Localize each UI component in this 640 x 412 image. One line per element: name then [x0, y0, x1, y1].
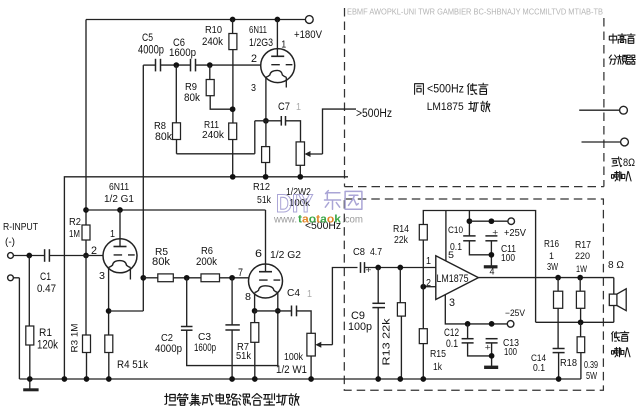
wire: cathode node to C7: [266, 120, 281, 122]
text 喇叭 (top): [612, 171, 632, 181]
svg-text:LM1875: LM1875: [437, 273, 469, 285]
svg-text:LM1875: LM1875: [427, 101, 464, 113]
watermark 乐: [325, 191, 341, 210]
svg-text:1k: 1k: [433, 362, 443, 373]
resistor R2 1M: [82, 225, 90, 240]
capacitor C4: [291, 306, 293, 317]
wire: pin 5 supply stub: [445, 211, 447, 261]
capacitor C12 0.1: [462, 338, 474, 340]
wire: R8 bottom lead: [176, 140, 178, 154]
svg-text:5W: 5W: [586, 371, 597, 382]
wire: G3 heater tick: [285, 77, 287, 87]
svg-text:1/2G3: 1/2G3: [249, 37, 273, 49]
resistor R3 1M: [83, 335, 91, 353]
wire: R7 bottom lead: [254, 342, 256, 379]
resistor R11 240k: [229, 123, 237, 140]
wire: R18 bottom lead: [580, 353, 582, 379]
junction C14 / rail: [556, 376, 562, 382]
svg-text:C7: C7: [278, 101, 290, 113]
junction ground return / rail: [62, 376, 68, 382]
wire: G1 plate wire y=210: [86, 209, 266, 211]
junction R13 top: [397, 265, 403, 271]
svg-text:100k: 100k: [284, 352, 304, 363]
wire: C10 top lead: [468, 211, 470, 236]
wire: cathode out right: [109, 310, 144, 312]
svg-text:2: 2: [91, 245, 97, 257]
svg-text:80k: 80k: [152, 256, 170, 268]
wire: G1 cathode drop: [108, 267, 110, 335]
svg-text:1600p: 1600p: [194, 342, 216, 354]
junction G1 plate: [117, 207, 123, 213]
svg-text:EBMF AWOPKL-UNI TWR GAMBIER BC: EBMF AWOPKL-UNI TWR GAMBIER BC-SHBNAJY M…: [347, 8, 603, 17]
wire: G1 plate lead: [119, 210, 121, 247]
svg-text:4000p: 4000p: [155, 343, 182, 355]
junction C9 top: [375, 265, 381, 271]
junction C3 / rail: [229, 376, 235, 382]
wire: W1 wiper riser to C8: [332, 268, 357, 345]
triode U1 G1 (6N11 half): [103, 239, 137, 273]
junction -25V wire / C13: [489, 321, 495, 327]
junction pin 2 node: [420, 284, 426, 290]
wire: G2 plate lead: [265, 210, 267, 272]
wire: W1 bottom lead: [310, 356, 312, 379]
text 喇叭 (speaker): [612, 347, 631, 357]
wire: C2 bottom to cathode return: [187, 311, 278, 366]
resistor R7 51k: [251, 323, 259, 343]
junction R9/R10/R11: [230, 106, 236, 112]
capacitor C13 100: [486, 338, 498, 340]
wire: W2 wiper to >500Hz out: [323, 109, 357, 154]
speaker (8 ohm woofer): [609, 294, 617, 305]
ground bar (supply +): [484, 265, 498, 268]
svg-text:1: 1: [307, 289, 312, 300]
capacitor C8 4.7: [360, 262, 362, 273]
wire: crossover out 2: [582, 141, 621, 143]
svg-text:8 Ω: 8 Ω: [608, 260, 624, 271]
svg-text:3W: 3W: [547, 262, 558, 273]
potentiometer W1 100k: [307, 333, 315, 356]
wire: grid filter line left: [143, 277, 158, 279]
terminal crossover out 1: [620, 106, 628, 114]
wire: C11 bottom lead: [490, 241, 492, 267]
svg-text:240k: 240k: [202, 36, 223, 48]
wire: R14 bottom to pin2: [422, 240, 424, 287]
capacitor C9 100p: [372, 302, 385, 304]
wire: +180V top rail: [86, 19, 305, 21]
wire: G3 grid line left: [143, 64, 155, 66]
svg-text:R4 51k: R4 51k: [117, 359, 148, 371]
terminal input ground: [8, 275, 14, 281]
wire: left ground drop: [18, 278, 20, 379]
wire: C4 to W1 top: [297, 311, 312, 333]
svg-text:C14: C14: [531, 353, 546, 363]
wire: C1 to G1 grid: [49, 255, 103, 257]
svg-text:7: 7: [238, 267, 243, 279]
junction grid node at R2/R3: [83, 253, 89, 259]
svg-text:1600p: 1600p: [169, 47, 196, 59]
svg-text:2: 2: [251, 53, 257, 65]
svg-text:3: 3: [99, 271, 105, 282]
junction R15 / rail: [420, 376, 426, 382]
svg-text:R3 1M: R3 1M: [70, 323, 81, 352]
junction C10/C11 gnd: [489, 252, 495, 258]
wire: G3 plate lead: [276, 20, 278, 57]
svg-text:taotaok: taotaok: [298, 214, 342, 226]
svg-text:100p: 100p: [348, 321, 372, 333]
wire: pin 3 stub to -25V wire: [445, 295, 507, 324]
text 低音 (speaker): [612, 331, 629, 341]
wire: R7 top lead: [254, 311, 256, 323]
capacitor C2 4000p: [181, 326, 193, 328]
junction +25V wire / C11: [489, 218, 495, 224]
resistor R8 80k: [173, 123, 181, 140]
wire: R5 to R6: [173, 277, 201, 279]
caption 胆管集成电路混合型功放: [165, 394, 299, 406]
terminal +180V: [305, 16, 313, 24]
svg-text:+: +: [366, 265, 372, 275]
svg-text:100: 100: [501, 253, 515, 264]
junction R11/ground wire: [230, 174, 236, 180]
svg-text:80k: 80k: [155, 131, 172, 143]
svg-text:0.39: 0.39: [584, 360, 598, 371]
resistor R18 0.39 5W: [577, 337, 585, 353]
resistor R1 120k: [26, 326, 34, 345]
junction -25V wire / C12: [465, 321, 471, 327]
junction +25V wire / C10: [467, 218, 473, 224]
svg-text:+25V: +25V: [504, 228, 526, 239]
text 功放: [469, 101, 490, 111]
svg-text:100: 100: [504, 347, 517, 358]
wire: C6 to G3 grid: [196, 64, 261, 66]
wire: R2 bottom to grid node: [85, 240, 87, 256]
junction B+ branch / G1 plate wire: [83, 207, 89, 213]
wire: grid node down to R3: [85, 256, 87, 336]
wire: R12 bottom lead: [265, 163, 267, 177]
svg-text:C4: C4: [287, 288, 300, 299]
wire: C3 top lead: [231, 278, 233, 325]
text 中高音: [609, 34, 635, 44]
triode U2 G3 (6N11 half): [261, 49, 295, 83]
svg-text:(-): (-): [5, 237, 15, 248]
resistor R6 200k: [201, 274, 220, 282]
wire: R8 net riser: [254, 121, 256, 154]
svg-text:0.1: 0.1: [450, 242, 462, 253]
junction C3 top: [229, 275, 235, 281]
svg-text:3: 3: [449, 297, 455, 309]
svg-text:+: +: [485, 342, 491, 352]
svg-text:51k: 51k: [257, 195, 272, 206]
svg-text:1W: 1W: [576, 264, 587, 274]
junction B+ / G3 plate: [275, 17, 281, 23]
ground symbol: [29, 379, 31, 390]
wire: feedback riser x=143.3: [142, 65, 144, 278]
svg-text:.com: .com: [342, 214, 363, 226]
svg-text:www.: www.: [273, 214, 297, 226]
wire: W2 bottom lead: [299, 165, 301, 177]
resistor R15 1k: [419, 329, 427, 344]
svg-text:>500Hz: >500Hz: [356, 106, 392, 120]
capacitor C10 0.1: [463, 235, 475, 237]
wire: C2 top lead: [186, 278, 188, 327]
svg-text:R14: R14: [393, 224, 409, 235]
resistor R16 1R 3W: [554, 291, 563, 308]
junction R4 / rail: [106, 376, 112, 382]
resistor R9 80k: [206, 80, 214, 96]
ground bar (supply -): [484, 366, 498, 369]
wire: C8 to pin 1: [365, 267, 436, 269]
wire: B+ rail down left branch x=86 (to R2): [85, 20, 87, 226]
svg-text:R18: R18: [560, 358, 577, 369]
svg-text:220: 220: [575, 251, 590, 261]
wire: feedback rail: [423, 211, 535, 323]
wire: cathode node left to R8 riser: [255, 120, 266, 122]
potentiometer W2 100k: [296, 142, 304, 165]
wire: R16 to C14: [557, 308, 559, 348]
watermark 园: [345, 191, 362, 209]
wire: R10 bottom to R11: [232, 50, 234, 123]
wire: R15 bottom lead: [422, 344, 424, 379]
wire: R18 top lead: [580, 322, 582, 337]
svg-text:R15: R15: [430, 349, 446, 360]
svg-text:8: 8: [245, 292, 251, 303]
text 或: [612, 157, 622, 167]
svg-text:C8: C8: [353, 247, 365, 258]
svg-text:22k: 22k: [394, 235, 409, 246]
svg-text:1/2 G1: 1/2 G1: [104, 194, 134, 205]
wire: +25V wire: [469, 220, 508, 222]
wire: speaker return: [536, 321, 614, 323]
text 分频器: [609, 55, 635, 64]
svg-text:1/2 W1: 1/2 W1: [276, 364, 307, 376]
svg-text:240k: 240k: [202, 130, 225, 141]
resistor R17 220 1W: [576, 291, 584, 308]
svg-text:C1: C1: [40, 271, 51, 283]
junction cathode return: [275, 308, 281, 314]
wire: R12 top lead: [265, 121, 267, 147]
svg-text:+180V: +180V: [294, 29, 322, 41]
junction R13 / rail: [397, 376, 403, 382]
op-amp U4 LM1875: [436, 256, 479, 300]
wire: R8 top lead: [175, 65, 177, 123]
capacitor C7: [280, 116, 282, 126]
junction C2 top: [184, 275, 190, 281]
svg-text:0.1: 0.1: [446, 338, 458, 350]
junction W1 / rail: [308, 376, 314, 382]
junction W2/ground wire: [297, 174, 303, 180]
svg-text:1M: 1M: [69, 229, 80, 240]
text 低音 (after 500Hz): [467, 83, 488, 94]
svg-text:51k: 51k: [236, 351, 252, 362]
dashed box: <500Hz LM1875 bass amp section: [344, 199, 603, 390]
terminal input signal: [8, 253, 14, 259]
junction input / R1: [26, 253, 32, 259]
wire: G2 cathode drop: [254, 293, 256, 311]
terminal -25V: [507, 321, 514, 328]
wire: R13 top lead: [399, 268, 401, 303]
terminal +25V: [508, 218, 515, 225]
svg-text:C10: C10: [448, 225, 463, 235]
resistor R12 51k: [262, 147, 270, 163]
wire: C9 bottom lead: [377, 308, 379, 379]
wire: R15 top lead: [422, 287, 424, 329]
junction R17/R18/return: [578, 319, 584, 325]
junction B+ / R10: [230, 17, 236, 23]
wire: R10 top lead: [232, 20, 234, 34]
wire: C3 bottom to ground: [231, 330, 233, 379]
junction R1 / rail: [27, 376, 33, 382]
svg-text:200k: 200k: [196, 256, 217, 268]
junction C9 / rail: [375, 376, 381, 382]
resistor R10 240k: [229, 34, 237, 50]
svg-text:6N11: 6N11: [109, 182, 129, 193]
svg-text:6: 6: [255, 248, 262, 260]
junction R3 / rail: [84, 376, 90, 382]
resistor R13 22k: [397, 303, 405, 316]
capacitor C11 100: [485, 235, 497, 237]
junction G1 cathode / follower output: [106, 308, 112, 314]
svg-text:0.1: 0.1: [533, 363, 545, 374]
svg-text:1/2 G2: 1/2 G2: [270, 250, 301, 261]
resistor R4 51k: [105, 335, 113, 353]
wire: R1 bottom lead: [29, 345, 31, 379]
wire: R13 bottom lead: [400, 316, 402, 379]
capacitor C6 1600p: [190, 59, 192, 72]
svg-text:R10: R10: [205, 25, 222, 36]
wire: speaker top lead: [613, 278, 615, 295]
wire: C14 bottom lead: [558, 353, 560, 379]
wire: input ground terminal stub: [13, 277, 19, 279]
wire: C12 bottom to C13 gnd: [468, 343, 492, 356]
wire: R8 bottom across: [177, 153, 255, 155]
wire: cathode to C4: [255, 310, 292, 312]
svg-text:6N11: 6N11: [249, 25, 267, 36]
capacitor C14 0.1: [553, 348, 565, 350]
wire: R17 top lead: [579, 278, 581, 292]
wire: main ground rail: [19, 378, 581, 380]
svg-text:3: 3: [251, 83, 256, 94]
junction G2 cathode / R7: [252, 308, 258, 314]
junction R17 top: [577, 275, 583, 281]
wire: R6 to G2 grid: [220, 277, 249, 279]
junction R16 top: [555, 275, 561, 281]
svg-text:+: +: [492, 228, 498, 238]
text 同: [415, 84, 424, 95]
svg-text:R2: R2: [69, 217, 81, 228]
wire: R17 bottom lead: [580, 308, 582, 322]
junction C6/R9: [207, 62, 213, 68]
svg-text:R16: R16: [544, 239, 559, 250]
svg-text:80k: 80k: [184, 92, 200, 104]
junction R12/ground wire: [263, 174, 269, 180]
dashed box: >500Hz mid-high crossover section (left/right/bottom edges): [345, 8, 604, 187]
junction G3 cathode node: [263, 118, 269, 124]
svg-text:4.7: 4.7: [370, 247, 382, 258]
svg-text:R12: R12: [253, 182, 270, 193]
wire: C10 bottom to C11 gnd: [469, 241, 491, 255]
junction R5 node: [140, 275, 146, 281]
svg-text:R-INPUT: R-INPUT: [3, 222, 38, 233]
capacitor C5 4000p: [155, 59, 157, 72]
svg-text:1: 1: [549, 251, 554, 261]
svg-text:1: 1: [110, 229, 115, 240]
capacitor C3 1600p: [225, 324, 239, 326]
wire: C13 bottom lead: [491, 343, 493, 367]
junction R7 / rail: [252, 376, 258, 382]
svg-text:<500Hz: <500Hz: [427, 82, 464, 96]
wire: G1 heater tick: [129, 267, 131, 279]
svg-text:1: 1: [426, 256, 431, 267]
svg-text:R17: R17: [575, 240, 591, 251]
wire: G2 right pin drop: [277, 293, 279, 311]
wire: G3 cathode drop: [265, 77, 267, 121]
wire: C7 to W2 top: [286, 121, 301, 142]
wire: crossover out 1: [579, 109, 619, 111]
junction C12/C13 gnd: [489, 353, 495, 359]
svg-text:R13 22k: R13 22k: [382, 317, 393, 365]
wire: R9 bottom to R10 node: [210, 96, 232, 110]
wire: R16 top lead: [557, 278, 559, 292]
svg-text:4000p: 4000p: [138, 43, 164, 57]
triode U3 G2 (6N11 half): [249, 264, 283, 298]
wire: input terminal to C1: [13, 255, 44, 257]
wire: C9 top lead: [377, 268, 379, 304]
wire: R11 bottom lead: [232, 140, 234, 177]
svg-text:0.47: 0.47: [37, 283, 56, 295]
wire: R4 bottom: [108, 353, 110, 380]
resistor R14 22k: [419, 225, 427, 241]
wire: output pin 4: [478, 277, 613, 279]
wire: R9 top lead: [209, 65, 211, 79]
junction C5/C6/R8: [173, 62, 179, 68]
resistor R5 80k: [158, 274, 174, 282]
svg-text:−25V: −25V: [505, 308, 525, 318]
wire: C12 top lead: [467, 324, 469, 339]
svg-text:1: 1: [296, 102, 301, 113]
wire: ground return of filter section: [64, 177, 348, 379]
capacitor C1 0.47: [44, 249, 46, 262]
svg-text:120k: 120k: [37, 338, 59, 352]
wire: pin 2 stub: [423, 286, 436, 288]
wire: R3 bottom to ground rail: [86, 353, 88, 380]
wire: R1 top lead: [28, 256, 30, 327]
terminal crossover out 2: [621, 138, 629, 146]
wire: speaker bottom lead: [613, 306, 615, 323]
svg-text:8Ω: 8Ω: [623, 157, 635, 169]
wire: cathode out up to R5 node: [142, 278, 144, 311]
wire: C5 to C6: [161, 64, 191, 66]
